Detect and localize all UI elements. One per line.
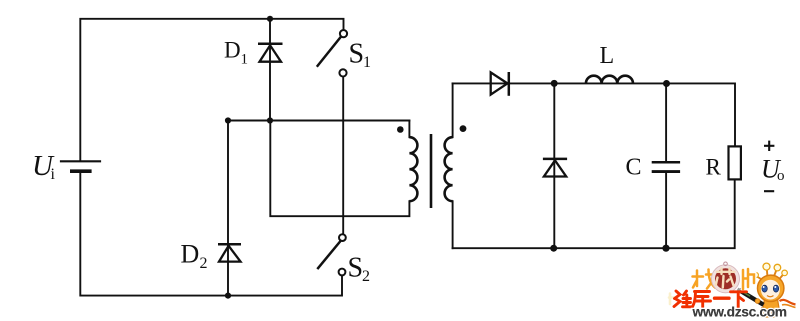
svg-text:R: R bbox=[706, 155, 722, 180]
svg-text:L: L bbox=[600, 43, 615, 69]
svg-text:2: 2 bbox=[200, 255, 208, 272]
svg-text:C: C bbox=[626, 155, 642, 181]
svg-text:o: o bbox=[777, 168, 785, 184]
svg-text:D: D bbox=[181, 240, 200, 269]
svg-text:1: 1 bbox=[363, 54, 371, 71]
svg-text:i: i bbox=[51, 166, 56, 183]
svg-text:S: S bbox=[349, 39, 365, 70]
svg-text:2: 2 bbox=[362, 268, 370, 285]
svg-text:www.dzsc.com: www.dzsc.com bbox=[692, 305, 787, 320]
svg-text:D: D bbox=[224, 38, 241, 63]
svg-text:1: 1 bbox=[241, 52, 249, 68]
svg-text:S: S bbox=[348, 253, 364, 284]
